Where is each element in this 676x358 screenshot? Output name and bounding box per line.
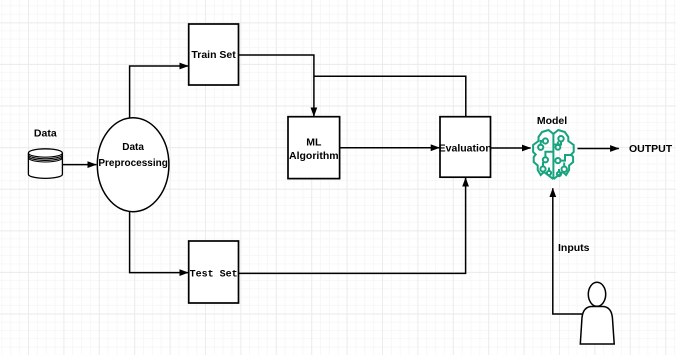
left hemisphere outline: [533, 130, 553, 179]
wire: Model brain to OUTPUT: [578, 148, 619, 150]
wire: ML Algorithm to Evaluation: [340, 147, 440, 149]
ellipse Data Preprocessing: [97, 118, 169, 212]
circuit node circles left: [543, 138, 548, 143]
wire: Evaluation to Model brain: [491, 147, 531, 149]
svg-text:Test Set: Test Set: [190, 269, 238, 280]
svg-text:Data: Data: [122, 142, 144, 153]
icon Model brain (circuit brain): [533, 130, 574, 179]
svg-text:Algorithm: Algorithm: [289, 150, 339, 162]
circuit traces right: [554, 142, 570, 172]
person icon head: [588, 282, 605, 306]
box Train Set: [189, 24, 239, 85]
circuit traces left: [541, 141, 553, 171]
hemisphere divide: [552, 134, 554, 178]
box Test Set: [189, 241, 239, 303]
wire: Train Set right, down into ML Algorithm: [239, 55, 314, 116]
svg-text:ML: ML: [306, 137, 322, 149]
svg-text:Train Set: Train Set: [191, 49, 236, 61]
circuit node circles right: [558, 136, 563, 141]
person icon body: [580, 307, 614, 345]
wire: cylinder Data to Data Preprocessing ellipse: [63, 164, 96, 166]
box ML Algorithm: [288, 117, 340, 179]
right hemisphere outline: [554, 130, 574, 179]
svg-text:Model: Model: [537, 115, 567, 127]
wire: Test Set right, up into Evaluation bottom: [239, 178, 466, 274]
cylinder database Data: [28, 149, 62, 179]
wire: person Inputs up into Model brain: [553, 188, 582, 314]
svg-text:OUTPUT: OUTPUT: [629, 143, 673, 155]
svg-text:Inputs: Inputs: [558, 242, 590, 254]
svg-text:Evaluation: Evaluation: [439, 142, 492, 154]
svg-text:Data: Data: [34, 127, 57, 139]
svg-text:Preprocessing: Preprocessing: [98, 158, 167, 169]
box Evaluation: [440, 117, 491, 178]
wire: ellipse top up and right to Train Set: [130, 66, 189, 118]
wire: branch from Train Set wire to Evaluation top: [314, 76, 466, 116]
wire: ellipse bottom down and right to Test Set: [130, 212, 189, 273]
